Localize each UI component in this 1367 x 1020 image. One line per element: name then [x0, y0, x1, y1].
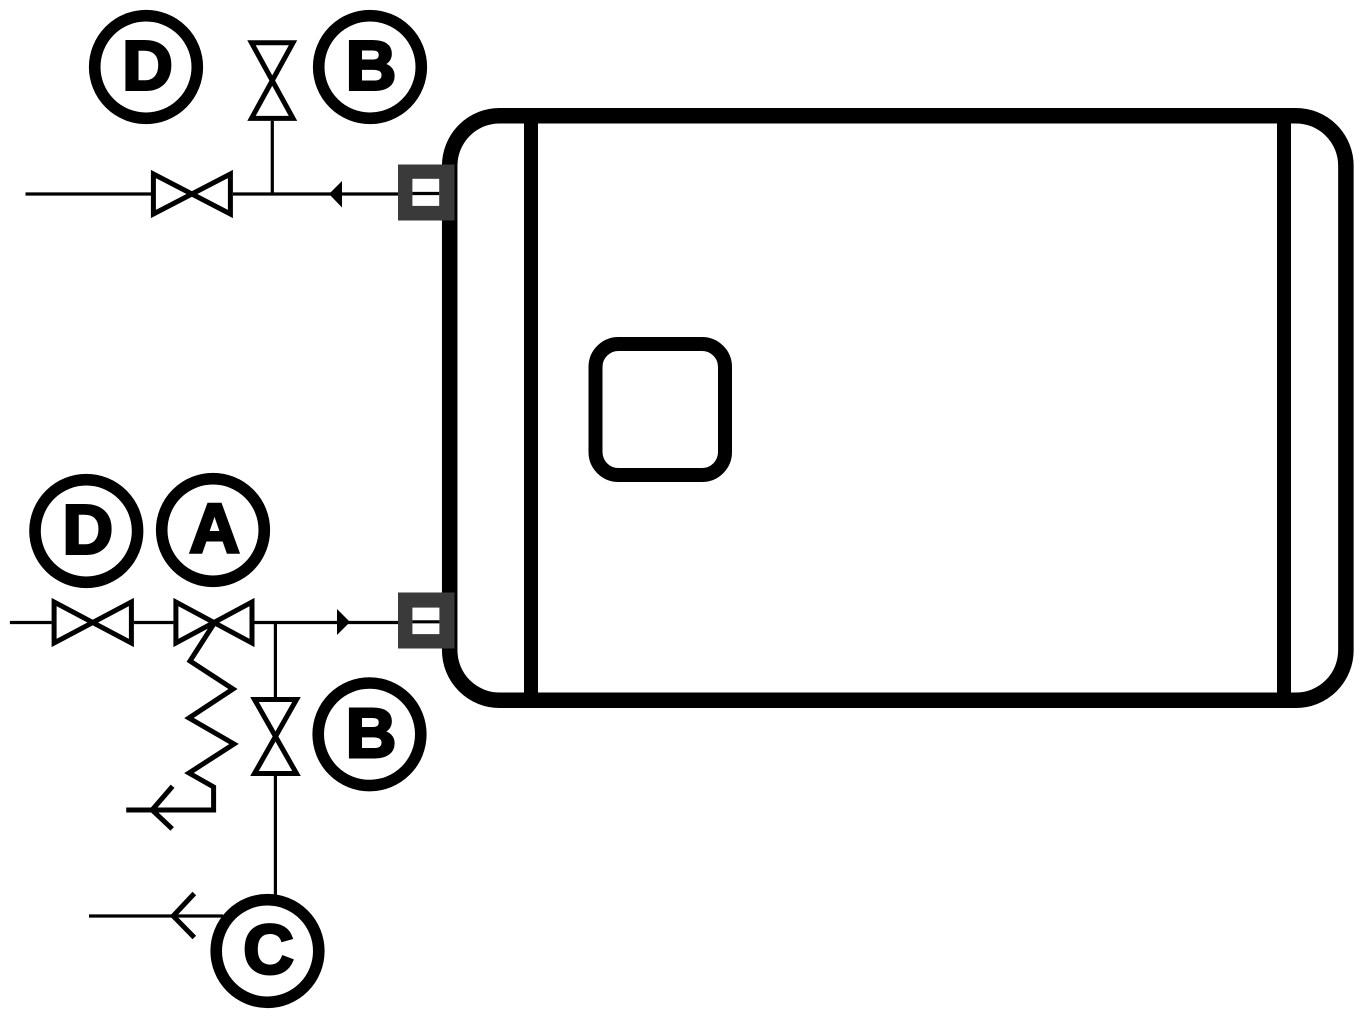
wire: top inlet pipe	[26, 192, 446, 195]
wire: branch from valve B down to circle C	[274, 776, 277, 895]
valve V2 (vertical valve above top pipe)	[252, 43, 294, 119]
tank T1 (horizontal water heater)	[450, 116, 1346, 701]
fitting: upper tank connection (gray boss)	[398, 165, 455, 221]
arrow: open arrowhead on drain line pointing left	[173, 894, 194, 938]
wire: stem from vertical valve V2 down to top pipe	[271, 121, 274, 194]
wire: bottom supply pipe	[10, 621, 445, 624]
valve V5 (vertical valve B on drain branch)	[255, 700, 297, 774]
svg-text:B: B	[346, 27, 397, 105]
valve V4 (valve A on bottom pipe)	[176, 602, 252, 643]
label circle B (middle)	[318, 683, 421, 786]
tank right head seam line	[1277, 110, 1291, 706]
relief line: zigzag from valve A down-left	[126, 624, 234, 810]
wire: drain outlet line at circle C	[89, 914, 223, 917]
arrow: flow arrow on bottom pipe pointing right	[337, 609, 350, 635]
label circle D (top)	[95, 16, 198, 119]
label circle A (middle)	[162, 479, 265, 582]
arrow: flow arrow on top pipe pointing left	[329, 181, 342, 208]
svg-text:B: B	[346, 694, 397, 772]
label circle C (bottom)	[216, 900, 319, 1003]
svg-text:C: C	[243, 911, 294, 989]
arrow: open arrowhead on relief line pointing left	[152, 786, 173, 829]
tank left head seam line	[524, 110, 538, 706]
svg-text:A: A	[189, 490, 240, 568]
label circle B (top)	[319, 16, 422, 119]
wire: branch down from bottom pipe to valve B	[274, 623, 277, 698]
valve V1 (shutoff valve on top pipe)	[153, 174, 230, 214]
label circle D (middle)	[35, 480, 138, 583]
fitting: lower tank connection (gray boss)	[398, 593, 455, 649]
svg-text:D: D	[63, 491, 114, 569]
valve V3 (shutoff valve D on bottom pipe)	[54, 602, 131, 643]
tank access panel (rounded square)	[596, 344, 726, 475]
svg-text:D: D	[122, 27, 173, 105]
